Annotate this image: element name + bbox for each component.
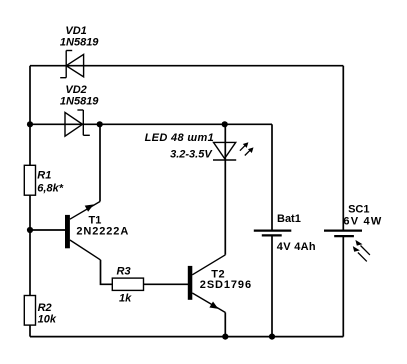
wire T1 collector to R3 (101, 260, 113, 284)
LED light arrow 2 (245, 147, 254, 155)
wire left vertical bus (29, 66, 31, 337)
SC1 light arrow 1 (355, 240, 370, 255)
svg-text:SC1: SC1 (348, 203, 369, 215)
node at T1 base / divider (27, 227, 33, 233)
svg-text:1k: 1k (119, 293, 132, 305)
wire LED vertical lower (to T2 collector) (224, 160, 226, 255)
node at T2 emitter / bottom rail (222, 334, 228, 340)
solar cell SC1 (324, 231, 362, 237)
resistor R1 (24, 165, 35, 195)
svg-text:4V 4Ah: 4V 4Ah (277, 241, 316, 253)
svg-text:10k: 10k (38, 313, 57, 325)
wire top horizontal (30, 65, 343, 67)
node at LED anode (222, 121, 228, 127)
node at VD2 cathode (97, 121, 103, 127)
wire mid horizontal (VD2 rail) (30, 123, 272, 125)
wire right vertical upper (to SC1) (342, 66, 344, 231)
svg-text:3.2-3.5V: 3.2-3.5V (170, 148, 213, 160)
wire T1 base (30, 229, 65, 231)
wire Bat1 lower vertical (271, 235, 273, 336)
wire T2 emitter vertical (224, 313, 226, 337)
resistor R3 (112, 278, 143, 290)
wire right vertical lower (from SC1) (342, 236, 344, 337)
resistor R2 (24, 296, 35, 326)
svg-text:R3: R3 (117, 266, 131, 278)
node at left rail / VD2 anode (27, 121, 33, 127)
svg-text:1N5819: 1N5819 (60, 96, 99, 108)
svg-text:6,8k*: 6,8k* (37, 183, 63, 195)
node at Bat1 minus / bottom rail (269, 334, 275, 340)
svg-text:1N5819: 1N5819 (60, 37, 99, 49)
transistor T1 (65, 202, 101, 260)
svg-text:VD2: VD2 (65, 84, 86, 96)
svg-text:R1: R1 (37, 170, 51, 182)
wire T1 emitter vertical (99, 124, 101, 201)
node junction dots (27, 121, 275, 340)
svg-text:R2: R2 (38, 302, 52, 314)
wire bottom horizontal (30, 336, 343, 338)
svg-text:LED 48 шт1: LED 48 шт1 (145, 132, 215, 144)
transistor T2 (188, 255, 226, 313)
svg-text:Bat1: Bat1 (277, 213, 301, 225)
battery Bat1 (254, 231, 291, 236)
svg-text:2N2222A: 2N2222A (76, 226, 129, 238)
wire LED vertical upper (224, 124, 226, 160)
svg-text:VD1: VD1 (65, 25, 86, 37)
diode VD2 (65, 110, 90, 136)
LED D1 (213, 142, 236, 160)
wire R3 to T2 base (144, 283, 189, 285)
svg-text:2SD1796: 2SD1796 (200, 279, 252, 291)
SC1 light arrow 2 (353, 246, 367, 261)
LED light arrow 1 (240, 142, 249, 150)
wire Bat1 upper vertical (271, 124, 273, 230)
svg-text:6V 4W: 6V 4W (343, 216, 382, 228)
diode VD1 (60, 51, 83, 78)
